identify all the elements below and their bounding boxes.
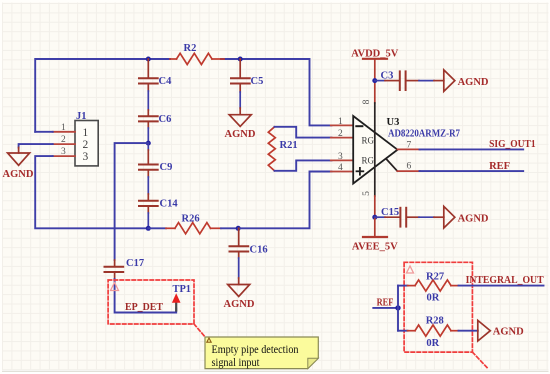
leader tail from R27 box [472,352,487,367]
svg-text:AVDD_5V: AVDD_5V [351,49,398,60]
svg-text:3: 3 [338,152,343,162]
pin 2 stub [53,143,75,145]
node: REF junction [395,305,400,310]
wire REF to R28 [398,330,408,332]
R27/R28 dashed highlight box [404,262,472,352]
svg-text:R28: R28 [426,315,444,326]
resistor R28 [408,315,459,349]
svg-text:REF: REF [489,161,510,172]
svg-text:C5: C5 [251,76,264,87]
capacitor C16 [230,228,268,258]
op-amp U3 pin stubs [331,125,353,171]
node: AVDD/C3/pin8 junction [372,78,377,83]
wire bottom rail C14-to-R26 [148,227,166,229]
capacitor C17 [105,258,145,279]
ground AGND at J1 pin2 [3,153,34,180]
wire REF input [373,307,398,309]
pin 2 stub [331,137,353,139]
svg-text:6: 6 [407,162,412,172]
ground AGND right of R28 [478,320,524,341]
minus sign (pin2) [356,125,362,127]
wire R28 to AGND [459,330,478,332]
wire J1 pin1 to top rail [35,131,53,133]
R27 box note marker triangle [407,266,414,273]
capacitor C3 [375,71,419,91]
wire C17 to test point (net EP_DET) [115,279,177,313]
wire top rail C5-to-pin1 drop [240,59,331,125]
pin 6 REF stub [386,159,420,172]
svg-text:AGND: AGND [225,129,256,140]
svg-text:U3: U3 [387,117,400,128]
svg-text:C16: C16 [250,245,268,256]
wire R27 to INTEGRAL_OUT [459,285,544,287]
node: top rail / C4 junction [146,57,151,62]
power AVEE_5V [352,217,398,252]
svg-text:RG: RG [362,136,375,146]
wire J1 pin3 to bottom rail [35,156,148,228]
pin 1 stub [53,131,75,133]
resistor R2 [170,43,224,65]
svg-text:2: 2 [83,139,89,151]
capacitor C14 [139,194,178,213]
EP_DET dashed highlight box [108,280,194,324]
wire C14 to bottom rail [147,213,149,228]
svg-text:R26: R26 [182,214,200,225]
svg-text:3: 3 [83,151,89,163]
wire C16 to AGND [238,258,240,278]
wire REF (pin 6) [420,170,524,172]
wire bottom rail R26-to-C16 [221,227,238,229]
svg-text:AGND: AGND [493,327,524,338]
wire C5 to AGND [239,92,241,108]
wire mid junction to C17 [115,143,149,260]
wire top rail left segment [35,59,148,132]
capacitor C4 [139,59,172,91]
svg-text:AGND: AGND [224,299,255,310]
svg-text:0R: 0R [426,338,439,349]
wire R21 top to U3 pin2 [275,127,332,138]
svg-text:0R: 0R [427,293,440,304]
wire R21 bottom to U3 pin3 [275,160,332,170]
pin 7 output stub [397,141,420,151]
wire REF to R27 [398,285,408,287]
pin 3 stub [53,155,75,157]
wire J1 pin2 to AGND [19,144,53,147]
ground AGND below C16 [224,285,255,310]
node: C6/C9/C17 junction [146,141,151,146]
capacitor C6 [139,110,171,128]
resistor R27 [408,271,459,303]
svg-text:C17: C17 [126,258,144,269]
ground AGND right of C3 [444,70,489,92]
EP_DET box note marker triangle [111,283,119,291]
svg-text:1: 1 [83,127,89,139]
svg-text:1: 1 [61,123,66,133]
pin 1 stub [331,124,353,126]
svg-text:SIG_OUT1: SIG_OUT1 [489,139,535,150]
leader line from EP_DET box to note [194,324,206,338]
wire C15 to AGND [419,216,434,218]
connector J1 [53,111,98,166]
svg-text:3: 3 [61,147,66,157]
svg-text:AD8220ARMZ-R7: AD8220ARMZ-R7 [388,129,460,140]
svg-text:C3: C3 [381,71,394,82]
svg-text:AGND: AGND [458,77,489,88]
svg-text:RG: RG [362,156,375,166]
svg-text:7: 7 [407,141,412,151]
pin 4 stub [331,171,353,173]
svg-text:AGND: AGND [458,213,489,224]
capacitor C5 [231,59,263,92]
svg-text:AVEE_5V: AVEE_5V [352,241,398,252]
wire C6 to mid junction [147,128,149,143]
wire REF riser to R27/R28 [397,286,399,331]
svg-text:C14: C14 [160,199,179,210]
svg-text:signal input: signal input [212,357,261,369]
wire top rail R2-to-C5 [221,58,240,60]
op-amp U3 triangle body [353,81,460,218]
svg-text:TP1: TP1 [173,284,192,295]
svg-text:R21: R21 [280,140,298,151]
svg-text:REF: REF [377,297,394,308]
ground AGND below C5 [225,115,256,140]
plus sign (pin4) [357,170,364,172]
capacitor C15 [375,207,419,227]
svg-text:C6: C6 [159,114,172,125]
yellow note: Empty pipe detection signal input [205,337,318,369]
supply rail through symbol (pins 8,5) [374,81,376,103]
svg-text:1: 1 [338,117,343,127]
wire SIG_OUT1 [420,148,524,150]
wire C4-C6 [147,91,149,110]
svg-text:R2: R2 [184,43,197,54]
ground AGND right of C15 [444,206,489,228]
node: top rail / C5 junction [238,57,243,62]
resistor R26 [166,214,221,234]
node: bottom rail / C16 junction [236,226,241,231]
svg-text:2: 2 [61,135,66,145]
svg-text:J1: J1 [76,111,87,122]
svg-text:C15: C15 [381,207,399,218]
svg-text:4: 4 [338,163,343,173]
wire bottom rail C16-to-pin4 riser [238,172,331,229]
svg-text:EP_DET: EP_DET [125,302,163,313]
svg-text:AGND: AGND [3,169,34,180]
svg-text:INTEGRAL_OUT: INTEGRAL_OUT [466,275,544,286]
svg-text:Empty pipe detection: Empty pipe detection [212,344,299,356]
svg-text:C9: C9 [160,162,173,173]
node: bottom rail / C14 junction [146,226,151,231]
note marker triangle [207,338,211,342]
capacitor C9 [139,143,172,177]
wire C9-C14 [147,177,149,194]
power AVDD_5V [351,49,398,81]
wire C3 to AGND [419,80,434,82]
svg-text:8: 8 [362,99,372,104]
pin 3 stub [331,159,353,161]
resistor R21 [268,127,297,171]
wire top rail C4-to-R2 [148,58,170,60]
svg-text:5: 5 [362,191,372,196]
svg-text:2: 2 [338,129,343,139]
node: AVEE/C15/pin5 junction [372,215,377,220]
svg-text:R27: R27 [426,271,444,282]
test point TP1 [172,284,191,311]
svg-text:C4: C4 [159,76,173,87]
